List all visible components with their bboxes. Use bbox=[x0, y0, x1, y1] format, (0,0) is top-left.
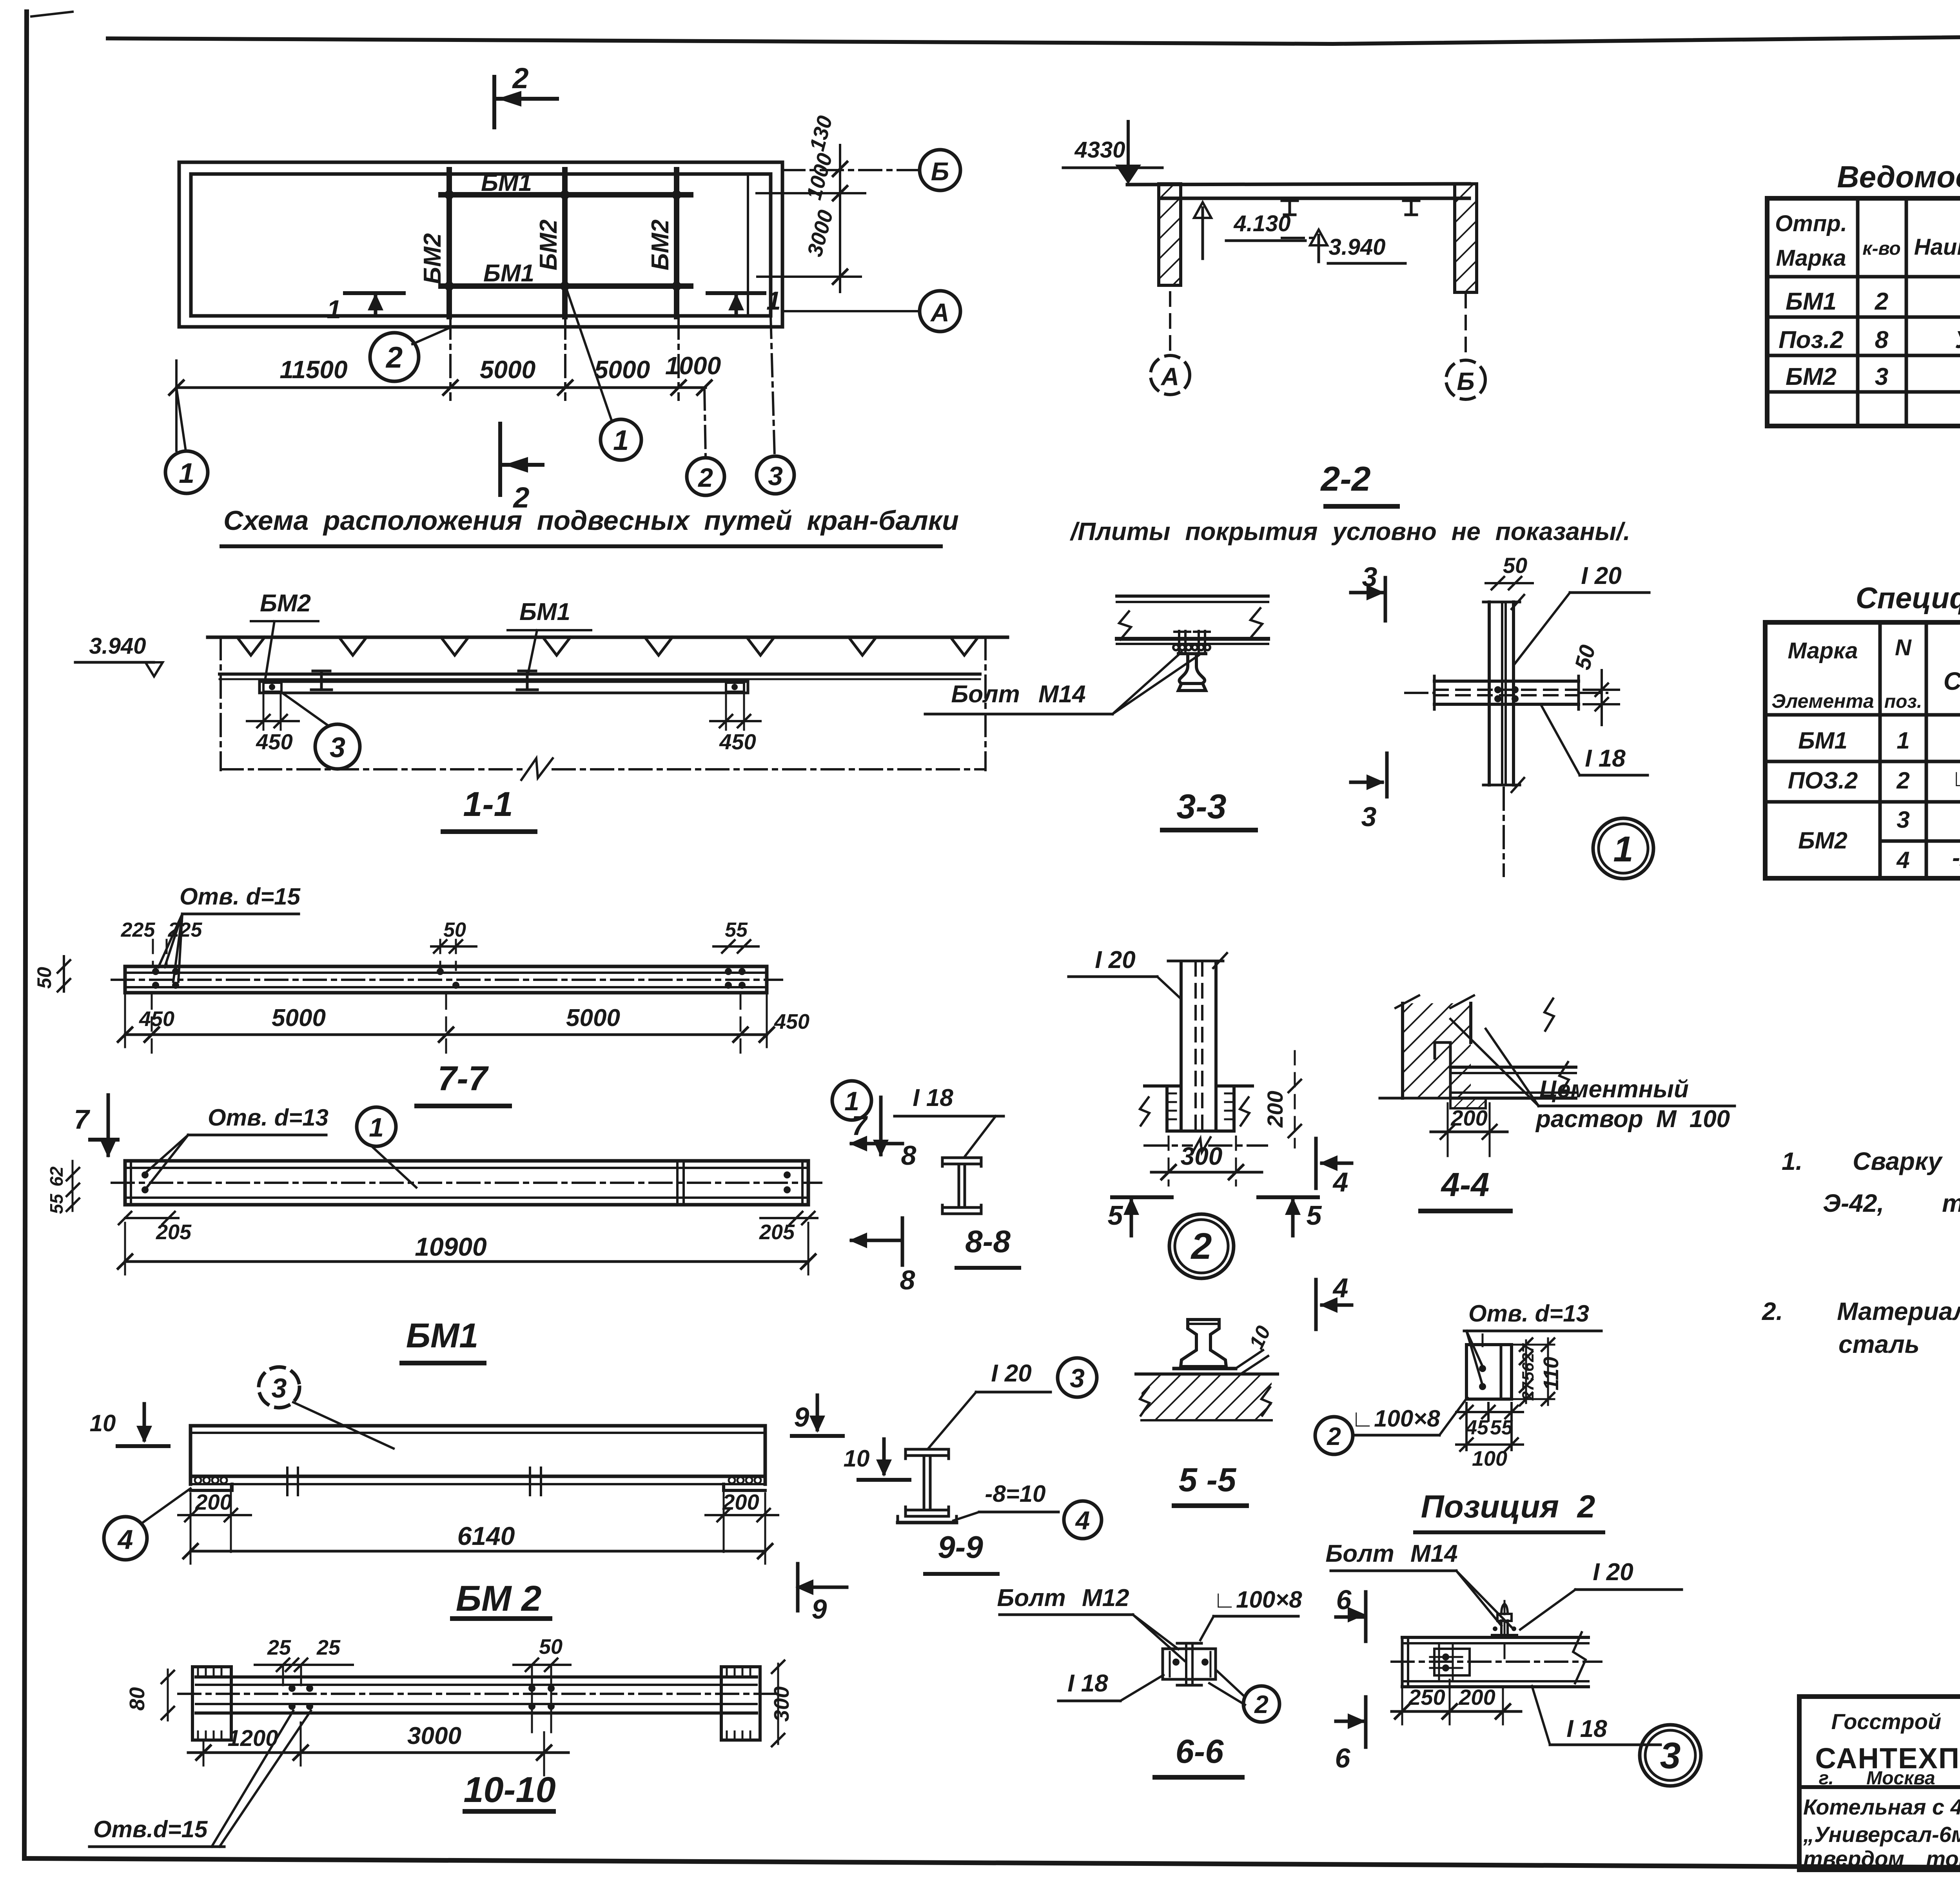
I-beam section 8-8 bbox=[942, 1158, 981, 1214]
section 1-1: title bbox=[443, 785, 535, 832]
detail 4-4: label cement mortar M100 bbox=[1450, 1019, 1735, 1133]
detail 6-6: circle 2 with leaders bbox=[1209, 1670, 1279, 1722]
svg-text:Отв. d=13: Отв. d=13 bbox=[208, 1104, 328, 1131]
svg-text:Отв. d=15: Отв. d=15 bbox=[180, 883, 301, 910]
svg-text:7: 7 bbox=[74, 1104, 91, 1135]
detail 5-5: rail section bbox=[1181, 1320, 1226, 1367]
beam BM2 view: position circle 4 with leader bbox=[104, 1488, 191, 1560]
svg-text:2-2: 2-2 bbox=[1320, 459, 1370, 498]
notes: note 1 line 2 bbox=[1823, 1189, 1960, 1217]
position 2 detail: right dim 110 bbox=[1513, 1338, 1563, 1405]
node 1: axis dash below bbox=[1503, 788, 1505, 876]
section 7-7: dim 50 top middle bbox=[431, 919, 476, 970]
plan: section marker 1 left bbox=[327, 293, 404, 324]
node 1: section marker 3 top bbox=[1351, 562, 1385, 621]
node 1: dim 50 top bbox=[1486, 553, 1533, 589]
beam BM2 view: section marker 10 left bbox=[90, 1404, 169, 1446]
beam BM2 view: end seat plates with weld dots bbox=[191, 1477, 765, 1490]
plan: dim label 1000 bbox=[665, 352, 721, 380]
node 3: bolt on top bbox=[1492, 1601, 1517, 1662]
node 2: detail circle 2 bbox=[1169, 1214, 1234, 1278]
section 1-1: rail cross symbol a bbox=[311, 671, 332, 690]
svg-text:3: 3 bbox=[1875, 363, 1888, 390]
node 2: floor pocket bbox=[1140, 1086, 1252, 1131]
svg-text:5000: 5000 bbox=[566, 1004, 620, 1031]
svg-text:3-3: 3-3 bbox=[1176, 787, 1226, 826]
svg-text:25: 25 bbox=[267, 1636, 291, 1659]
svg-text:3.940: 3.940 bbox=[1328, 234, 1385, 260]
beam BM2 view: title BM2 bbox=[452, 1579, 550, 1619]
svg-text:250: 250 bbox=[1408, 1685, 1445, 1709]
svg-text:200: 200 bbox=[1458, 1685, 1495, 1709]
detail 6-6: assembly bbox=[1163, 1643, 1216, 1685]
svg-text:-8=10: -8=10 bbox=[985, 1481, 1045, 1507]
notes: note 1 line 1 bbox=[1782, 1147, 1960, 1175]
section 9-9 title bbox=[925, 1530, 998, 1574]
svg-text:2: 2 bbox=[697, 463, 713, 493]
svg-text:4: 4 bbox=[1075, 1506, 1090, 1535]
shipping marks table: grid bbox=[1767, 198, 1960, 426]
notes: note 2 line 1 bbox=[1762, 1297, 1960, 1325]
svg-text:3000: 3000 bbox=[407, 1722, 461, 1749]
svg-text:Схема расположения подвесных п: Схема расположения подвесных путей кран-… bbox=[223, 505, 959, 536]
beam BM1 view: dim 205 left bbox=[119, 1212, 192, 1244]
steel specification table: row 1 bbox=[1798, 725, 1960, 756]
svg-text:5000: 5000 bbox=[594, 355, 650, 384]
svg-text:50: 50 bbox=[443, 919, 466, 941]
svg-text:2: 2 bbox=[512, 62, 528, 94]
svg-text:Цементный: Цементный bbox=[1539, 1076, 1689, 1103]
node 3: section marker 6 top bbox=[1336, 1584, 1366, 1641]
svg-text:к-во: к-во bbox=[1862, 238, 1900, 259]
svg-text:3: 3 bbox=[1070, 1363, 1085, 1393]
beam BM1 view: section marker 8 top bbox=[849, 1136, 916, 1171]
node 3: detail circle 3 bbox=[1640, 1725, 1701, 1786]
section 1-1: label BM2 with leader bbox=[251, 590, 318, 681]
section 1-1: BM2 suspended beam bar bbox=[260, 682, 748, 693]
plan: axis circle 2 bbox=[687, 388, 724, 495]
shipping marks table: row 3 bbox=[1786, 362, 1960, 390]
node 1: section marker 3 bottom bbox=[1351, 753, 1387, 832]
svg-text:∟100×8: ∟100×8 bbox=[1213, 1586, 1302, 1613]
node 3: label Bolt M14 bbox=[1325, 1540, 1512, 1627]
svg-text:∟100×8: ∟100×8 bbox=[1951, 765, 1960, 791]
svg-text:3: 3 bbox=[330, 732, 345, 763]
detail 6-6: label L100x8 bbox=[1200, 1586, 1302, 1640]
beam BM1 view: title BM1 bbox=[402, 1316, 484, 1363]
svg-text:80: 80 bbox=[125, 1687, 149, 1711]
position 2 detail: bottom dims 45 55 and 100 bbox=[1456, 1403, 1523, 1470]
svg-text:Ведомость отправочных марок: Ведомость отправочных марок bbox=[1837, 160, 1960, 194]
svg-text:4.130: 4.130 bbox=[1233, 211, 1290, 236]
plan: label BM2 right (rotated) bbox=[647, 219, 674, 270]
svg-text:8: 8 bbox=[1875, 326, 1889, 353]
plan: axis B dash line and circle bbox=[782, 150, 960, 190]
section 2-2: right column (hatched) bbox=[1455, 184, 1477, 292]
svg-text:БМ2: БМ2 bbox=[419, 233, 446, 284]
section 3-3: title bbox=[1162, 787, 1256, 830]
label Bolt M14 for section 3-3 bbox=[925, 652, 1199, 714]
node 2: section marker 5 left bbox=[1108, 1197, 1172, 1236]
svg-text:110: 110 bbox=[1539, 1357, 1563, 1390]
plan: label BM1 bottom bbox=[483, 260, 534, 287]
svg-text:Б: Б bbox=[1457, 367, 1474, 395]
svg-text:3: 3 bbox=[1361, 801, 1377, 832]
svg-text:I 18: I 18 bbox=[913, 1084, 953, 1111]
svg-text:4: 4 bbox=[1332, 1273, 1348, 1303]
svg-text:56: 56 bbox=[1519, 1362, 1537, 1381]
section 10-10: rotated dim 80 left bbox=[125, 1670, 174, 1720]
svg-text:БМ2: БМ2 bbox=[535, 219, 562, 270]
node 2: section marker 5 right bbox=[1258, 1197, 1322, 1236]
node 1: vertical beam I20 plan bbox=[1483, 595, 1524, 792]
section 2-2: title 2-2 bbox=[1320, 459, 1397, 506]
svg-text:1: 1 bbox=[179, 458, 194, 489]
svg-text:10: 10 bbox=[1245, 1322, 1275, 1352]
plan: bottom dimension line bbox=[169, 317, 711, 451]
svg-text:50: 50 bbox=[1503, 553, 1527, 578]
svg-text:Отв.d=15: Отв.d=15 bbox=[93, 1816, 208, 1842]
svg-text:2: 2 bbox=[1875, 288, 1888, 315]
svg-text:I 18: I 18 bbox=[1067, 1670, 1108, 1697]
svg-text:I 20: I 20 bbox=[991, 1360, 1031, 1387]
beam BM2 view: dim 6140 bbox=[183, 1493, 772, 1564]
title block: Moscow 1971 bbox=[1819, 1768, 1960, 1789]
section 2-2: left column (hatched) bbox=[1159, 184, 1181, 285]
plan: dim label 5000 b bbox=[594, 355, 650, 384]
beam BM2 view: section marker 9 bottom bbox=[795, 1564, 847, 1624]
section 10-10: beam body plan bbox=[178, 1677, 778, 1713]
section 7-7: beam body bbox=[112, 966, 782, 993]
svg-text:Спецификация стали на один эле: Спецификация стали на один элемент bbox=[1856, 582, 1960, 615]
node 1: detail circle 1 bbox=[1593, 818, 1653, 879]
beam BM1 view: section marker 7 left bbox=[74, 1095, 118, 1158]
svg-text:130: 130 bbox=[805, 113, 837, 154]
section 7-7: dims 225 225 top bbox=[121, 919, 203, 965]
detail 4-4: dim 200 bbox=[1431, 1103, 1507, 1156]
svg-text:/Плиты покрытия условно не пок: /Плиты покрытия условно не показаны/. bbox=[1069, 517, 1630, 546]
svg-text:3.940: 3.940 bbox=[89, 633, 146, 659]
steel specification table: grid bbox=[1765, 622, 1960, 878]
detail 4-4: title bbox=[1421, 1166, 1510, 1211]
svg-text:4: 4 bbox=[117, 1524, 133, 1555]
plan: axis A dash line and circle bbox=[782, 291, 960, 332]
svg-text:225: 225 bbox=[168, 919, 203, 941]
section 1-1: rail cross symbol b bbox=[517, 671, 537, 690]
node 2: axis dash below pocket bbox=[1145, 1137, 1267, 1154]
svg-text:3: 3 bbox=[272, 1373, 287, 1403]
plan: section marker 1 right bbox=[708, 286, 781, 315]
beam BM1 view: holes bbox=[142, 1171, 791, 1193]
beam BM2 view: stiffener ticks bbox=[287, 1468, 541, 1495]
section 1-1: dim 450 right bbox=[710, 694, 760, 754]
svg-text:10900: 10900 bbox=[415, 1232, 487, 1261]
svg-text:25: 25 bbox=[316, 1636, 341, 1659]
svg-text:5: 5 bbox=[1108, 1200, 1123, 1231]
section 10-10: right end plate bbox=[721, 1667, 760, 1740]
plan: label BM2 mid (rotated) bbox=[535, 219, 562, 270]
detail 4-4: beam on wall bbox=[1435, 999, 1576, 1098]
svg-text:2: 2 bbox=[1327, 1422, 1341, 1450]
section 10-10: holes right group bbox=[528, 1685, 555, 1710]
plan: label BM1 top bbox=[481, 169, 532, 196]
section 2-2: note plates not shown bbox=[1069, 517, 1630, 546]
beam BM2 view: dim 200 left bbox=[178, 1486, 251, 1552]
svg-text:1: 1 bbox=[1613, 829, 1633, 869]
svg-text:БМ1: БМ1 bbox=[481, 169, 532, 196]
position 2 detail: hole label Отв. d=13 bbox=[1464, 1300, 1601, 1383]
position 2 detail: angle plate bbox=[1466, 1334, 1512, 1399]
node 1: label I20 bbox=[1515, 562, 1649, 664]
title block: project name line 2 bbox=[1803, 1822, 1960, 1847]
beam BM1 view: section marker 8 bottom bbox=[849, 1218, 915, 1295]
beam BM2 view: section marker 9 top right bbox=[792, 1395, 843, 1436]
plan: detail mark circle 2 with leader bbox=[370, 328, 450, 381]
node 1: horizontal beam I18 plan bbox=[1405, 676, 1607, 709]
section 10-10: dim 50 top bbox=[514, 1635, 570, 1732]
detail 6-6: label I18 bbox=[1058, 1670, 1163, 1701]
svg-text:2: 2 bbox=[1896, 767, 1909, 794]
svg-text:Наименование: Наименование bbox=[1914, 234, 1960, 260]
plan: section marker 2 bottom bbox=[500, 424, 543, 514]
svg-text:Болт М12: Болт М12 bbox=[997, 1584, 1129, 1612]
svg-text:Госстрой СССР: Госстрой СССР bbox=[1831, 1709, 1960, 1734]
svg-text:А: А bbox=[1160, 363, 1179, 391]
svg-text:55: 55 bbox=[725, 919, 748, 941]
plan: beam BM2 vertical 1 bbox=[446, 170, 452, 317]
svg-text:9-9: 9-9 bbox=[938, 1530, 983, 1564]
svg-text:7-7: 7-7 bbox=[437, 1059, 489, 1098]
svg-text:27: 27 bbox=[1519, 1381, 1537, 1401]
svg-text:1: 1 bbox=[613, 425, 629, 456]
svg-text:300: 300 bbox=[1181, 1142, 1223, 1170]
svg-text:А: А bbox=[930, 298, 949, 327]
svg-text:1: 1 bbox=[369, 1113, 384, 1142]
section 10-10: hole label Отв.d=15 bbox=[89, 1711, 311, 1847]
svg-text:6140: 6140 bbox=[457, 1521, 515, 1550]
detail 4-4: ground line and mortar seat bbox=[1380, 1098, 1513, 1108]
steel specification table: header texts bbox=[1771, 635, 1960, 713]
beam BM1 view: beam body bbox=[112, 1161, 821, 1205]
plan: section marker 2 top bbox=[494, 62, 557, 127]
label -8=10 plate with circle 4 bbox=[953, 1481, 1102, 1539]
plan: outer wall bbox=[179, 162, 782, 327]
beam BM1 view: dim 10900 bbox=[118, 1223, 815, 1274]
plan: axis circle 1 bbox=[165, 388, 208, 493]
svg-text:БМ1: БМ1 bbox=[519, 598, 570, 625]
plan: dim label 5000 a bbox=[480, 355, 535, 384]
page border left bbox=[24, 12, 27, 1858]
svg-text:I 20: I 20 bbox=[1593, 1559, 1633, 1586]
svg-text:200: 200 bbox=[722, 1490, 759, 1514]
plan: beam BM2 vertical 2 bbox=[562, 170, 568, 317]
section 1-1: break mark on axis line bbox=[521, 758, 553, 780]
beam BM1 view: section marker 7 right bbox=[852, 1097, 889, 1157]
svg-text:9: 9 bbox=[794, 1402, 809, 1432]
svg-text:БМ2: БМ2 bbox=[1786, 363, 1837, 390]
steel specification table: title bbox=[1856, 582, 1960, 615]
plan: beam BM2 vertical 3 bbox=[674, 170, 679, 317]
plan title: Схема расположения подвесных путей кран-балки bbox=[221, 505, 959, 546]
title block: outer frame and dividers bbox=[1799, 1697, 1960, 1870]
svg-text:200: 200 bbox=[1450, 1106, 1487, 1130]
svg-text:раствор М 100: раствор М 100 bbox=[1535, 1106, 1730, 1133]
svg-text:2: 2 bbox=[1254, 1690, 1269, 1719]
svg-text:Э-42, толщина шва 6мм.: Э-42, толщина шва 6мм. bbox=[1823, 1189, 1960, 1217]
beam BM1 view: dim 205 right bbox=[759, 1212, 817, 1244]
section 10-10: holes left group bbox=[289, 1685, 313, 1710]
svg-text:∟100×8: ∟100×8 bbox=[1351, 1405, 1440, 1432]
svg-text:4: 4 bbox=[1896, 847, 1909, 873]
node 3: label I20 bbox=[1520, 1559, 1682, 1630]
svg-text:450: 450 bbox=[256, 729, 292, 754]
svg-text:50: 50 bbox=[1570, 642, 1600, 672]
svg-text:50: 50 bbox=[539, 1635, 563, 1659]
svg-text:Сечение: Сечение bbox=[1944, 667, 1960, 695]
svg-text:I 18: I 18 bbox=[1585, 745, 1626, 772]
svg-text:БМ1: БМ1 bbox=[1798, 727, 1847, 754]
title block: SANTEHPROEKT logo bbox=[1815, 1742, 1960, 1775]
page border bottom bbox=[24, 1858, 1960, 1870]
svg-text:450: 450 bbox=[719, 729, 756, 754]
plan: axis circle 3 bbox=[757, 316, 794, 494]
steel specification table: merged cells BM2 / 138.3 bbox=[1798, 827, 1960, 862]
node 3: dims 250 200 bbox=[1392, 1680, 1521, 1724]
plan: junction nodes bbox=[445, 190, 681, 291]
svg-text:1: 1 bbox=[766, 286, 781, 315]
svg-text:4330: 4330 bbox=[1074, 137, 1125, 163]
svg-text:5: 5 bbox=[1307, 1200, 1322, 1231]
beam BM1 view: hole label Отв. d=13 bbox=[146, 1104, 328, 1187]
svg-text:5000: 5000 bbox=[480, 355, 535, 384]
shipping marks table: header texts bbox=[1775, 205, 1960, 271]
svg-text:БМ1: БМ1 bbox=[1786, 288, 1837, 315]
plan: right vertical dimension 130/1000/3000 bbox=[757, 113, 865, 292]
section 7-7: holes bbox=[152, 968, 746, 989]
svg-text:55: 55 bbox=[1490, 1416, 1513, 1439]
shipping marks table: title bbox=[1837, 160, 1960, 194]
node 3: label I18 bottom bbox=[1532, 1686, 1661, 1745]
svg-text:9: 9 bbox=[812, 1594, 827, 1624]
section 2-2: elevation mark 4.130 bbox=[1194, 202, 1305, 259]
node 3: bolt group on web bbox=[1430, 1644, 1470, 1680]
section 10-10: rotated dim 300 right bbox=[770, 1661, 793, 1746]
node 3: section marker 6 bottom bbox=[1335, 1697, 1366, 1773]
svg-text:4-4: 4-4 bbox=[1441, 1166, 1490, 1204]
svg-text:5000: 5000 bbox=[272, 1004, 326, 1031]
section 2-2: roof slab bbox=[1127, 184, 1469, 198]
I-beam section 9-9 with plate bbox=[898, 1449, 956, 1523]
section 1-1: label BM1 with leader bbox=[508, 598, 591, 672]
svg-text:10-10: 10-10 bbox=[463, 1770, 555, 1810]
node 1: dim 50 right rotated bbox=[1570, 642, 1619, 725]
title block: Gosstroy SSSR bbox=[1831, 1709, 1960, 1734]
svg-text:1. Сварку элементов производит: 1. Сварку элементов производить электрод… bbox=[1782, 1147, 1960, 1175]
svg-text:Котельная с 4котлами: Котельная с 4котлами bbox=[1803, 1795, 1960, 1819]
svg-text:3: 3 bbox=[1660, 1735, 1681, 1777]
node 1: bolts at junction bbox=[1494, 686, 1519, 702]
svg-text:БМ2: БМ2 bbox=[647, 219, 674, 270]
svg-text:„Универсал-6м" на: „Универсал-6м" на bbox=[1803, 1822, 1960, 1847]
title block: project name line 1 bbox=[1803, 1795, 1960, 1819]
svg-text:БМ2: БМ2 bbox=[1798, 827, 1847, 854]
svg-text:300: 300 bbox=[770, 1686, 793, 1722]
section 1-1: detail circle 3 with leader bbox=[282, 693, 360, 769]
label I20 with circle 3 above 9-9 bbox=[928, 1358, 1097, 1448]
detail 5-5: dim 10 bbox=[1236, 1322, 1275, 1374]
beam BM1 view: left rotated dims 62 55 bbox=[46, 1161, 79, 1214]
svg-text:10: 10 bbox=[90, 1410, 116, 1436]
svg-text:Отв. d=13: Отв. d=13 bbox=[1468, 1300, 1589, 1327]
svg-text:3: 3 bbox=[1896, 807, 1909, 833]
svg-text:1: 1 bbox=[844, 1086, 859, 1116]
svg-text:БМ 2: БМ 2 bbox=[456, 1579, 542, 1619]
svg-text:БМ2: БМ2 bbox=[260, 590, 311, 617]
section 1-1: elevation 3.940 bbox=[75, 633, 163, 676]
svg-text:450: 450 bbox=[139, 1007, 174, 1031]
svg-text:Б: Б bbox=[931, 157, 949, 186]
svg-text:поз.: поз. bbox=[1884, 691, 1922, 712]
svg-text:8: 8 bbox=[900, 1265, 915, 1295]
svg-text:50: 50 bbox=[33, 967, 55, 989]
svg-text:I 20: I 20 bbox=[1095, 946, 1135, 973]
node 2: section marker 4 top bbox=[1316, 1138, 1352, 1197]
shipping marks table: row 2 bbox=[1779, 325, 1960, 353]
svg-text:Отпр.: Отпр. bbox=[1775, 211, 1847, 236]
svg-text:205: 205 bbox=[156, 1220, 192, 1244]
node 1: label I18 bbox=[1542, 706, 1648, 775]
position 2 detail: label L100x8 with circle 2 bbox=[1315, 1398, 1467, 1454]
steel specification table: row 3 bbox=[1896, 804, 1960, 835]
svg-text:8-8: 8-8 bbox=[965, 1224, 1011, 1259]
svg-text:3000: 3000 bbox=[803, 208, 838, 259]
svg-text:450: 450 bbox=[774, 1010, 809, 1033]
svg-text:-200×10: -200×10 bbox=[1952, 845, 1960, 871]
svg-text:БМ1: БМ1 bbox=[483, 260, 534, 287]
notes: note 2 line 2 bbox=[1838, 1330, 1960, 1358]
section 2-2: rail symbol right bbox=[1403, 201, 1419, 215]
node 2: label I20 bbox=[1069, 946, 1181, 999]
section 2-2: elevation mark 4330 bbox=[1063, 121, 1162, 184]
section 2-2: axis circle B bbox=[1446, 294, 1485, 399]
detail 4-4: hatched wall bbox=[1396, 995, 1474, 1098]
node 2: section marker 4 bottom bbox=[1316, 1273, 1352, 1329]
section 1-1: roof slab top line bbox=[208, 636, 1007, 639]
plan: beam BM1 horizontal top bbox=[441, 192, 691, 198]
svg-text:Марка: Марка bbox=[1776, 245, 1846, 271]
svg-text:г. Москва 1971 г.: г. Москва 1971 г. bbox=[1819, 1768, 1960, 1789]
svg-text:Болт М14: Болт М14 bbox=[951, 681, 1085, 708]
svg-text:1000: 1000 bbox=[665, 352, 721, 380]
position 2 detail: title bbox=[1415, 1489, 1603, 1532]
section 8-8 title bbox=[956, 1224, 1019, 1268]
svg-text:27: 27 bbox=[1519, 1343, 1537, 1362]
section 3-3: rail cross-section bbox=[1178, 654, 1206, 691]
svg-text:200: 200 bbox=[1263, 1091, 1287, 1128]
section 7-7: dim 55 top right bbox=[713, 919, 759, 953]
svg-text:10: 10 bbox=[844, 1445, 870, 1472]
plan: inner wall bbox=[191, 174, 771, 316]
svg-text:3: 3 bbox=[768, 461, 783, 491]
section 1-1: dim 450 left bbox=[247, 694, 299, 754]
shipping marks table: row 1 bbox=[1786, 288, 1960, 315]
svg-text:100: 100 bbox=[1472, 1447, 1507, 1470]
steel specification table: row 4 bbox=[1896, 845, 1960, 875]
node 2: column I20 bbox=[1168, 953, 1227, 1131]
section 7-7: bottom dimension line 450/5000/5000/450 bbox=[118, 995, 809, 1054]
svg-text:Позиция 2: Позиция 2 bbox=[1421, 1489, 1595, 1525]
section 1-1: rail beam line bbox=[220, 674, 980, 679]
